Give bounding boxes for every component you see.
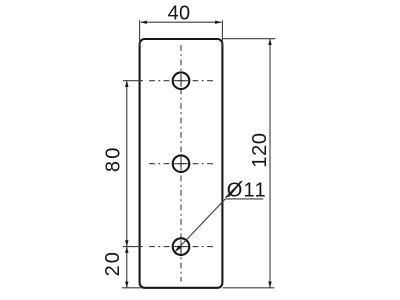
hole H1 horizontal centerline [146,80,216,82]
dimension 40: extension line left [139,20,141,46]
leader Ø11: diagonal line to bottom hole [175,199,225,252]
hole H3 center cross [175,240,187,252]
dimension 40: left arrowhead [141,20,147,24]
dimension 120: extension line top [223,38,276,40]
svg-text:120: 120 [249,132,271,167]
svg-text:40: 40 [168,3,191,25]
hole H1 center cross [175,75,187,87]
svg-text:20: 20 [102,250,124,276]
hole H1 (Ø11) [173,72,190,89]
dimension 120: top arrowhead [268,39,272,45]
vertical centerline (plate axis) [180,45,182,282]
dimension 120: bottom arrowhead [268,282,272,288]
dimension 40: right arrowhead [215,20,221,24]
dimension 80: extension line at top hole [123,80,143,82]
hole H2 center cross [175,158,187,170]
leader Ø11: shoulder line [225,198,263,200]
dimension 40: dimension line [141,21,222,23]
svg-text:80: 80 [102,145,124,172]
dimension 80: dimension line [126,81,128,247]
dimension 80/20: extension line at bottom hole [123,246,143,248]
dimension 20: top arrowhead [125,247,129,253]
hole H2 horizontal centerline [146,163,216,165]
dimension 120: dimension line [269,39,271,288]
dimension 80: bottom arrowhead [125,240,129,246]
dimension 120: extension line bottom [223,287,275,289]
dimension 80: top arrowhead [125,81,129,87]
svg-text:Ø11: Ø11 [227,180,267,202]
hole H3 (Ø11) [173,238,190,255]
dimension 20: extension line at bottom edge [122,287,142,289]
dimension 20: dimension line [126,247,128,288]
dimension 40: extension line right [221,20,223,46]
hole H3 horizontal centerline [146,246,216,248]
plate outline [140,39,223,288]
leader Ø11: diameter-symbol slash extension [226,181,242,198]
hole H2 (Ø11) [173,155,190,172]
leader Ø11: arrowhead at hole edge [175,245,181,251]
dimension 20: bottom arrowhead [125,282,129,288]
